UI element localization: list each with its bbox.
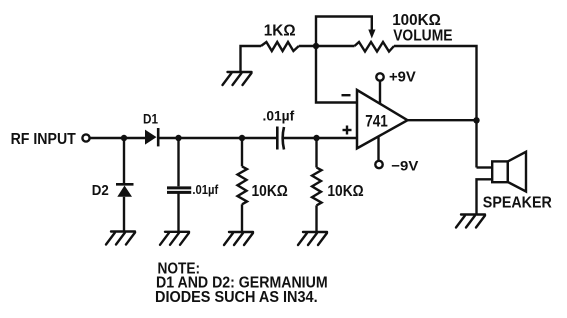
wire: wiper loop bbox=[316, 17, 372, 47]
wire: output to speaker top terminal bbox=[477, 166, 493, 168]
wiper arrow bbox=[368, 30, 375, 39]
svg-text:10KΩ: 10KΩ bbox=[252, 183, 288, 200]
label + input sign bbox=[343, 126, 352, 135]
svg-text:DIODES SUCH AS IN34.: DIODES SUCH AS IN34. bbox=[155, 289, 318, 306]
svg-text:10KΩ: 10KΩ bbox=[327, 183, 363, 200]
wire: C2 right plate to op-amp + input bbox=[284, 137, 358, 139]
svg-text:VOLUME: VOLUME bbox=[393, 27, 453, 44]
speaker LS1 bbox=[492, 152, 526, 192]
node: C1 tap junction bbox=[175, 135, 181, 141]
svg-text:D1: D1 bbox=[143, 111, 158, 127]
ground (speaker) bbox=[456, 215, 485, 228]
ground (R1) bbox=[223, 72, 252, 85]
−9V terminal bbox=[375, 137, 382, 169]
node: R3 tap junction bbox=[313, 135, 319, 141]
node: output junction bbox=[473, 117, 479, 123]
svg-text:−9V: −9V bbox=[391, 157, 419, 173]
ground (R2) bbox=[224, 232, 253, 245]
ground (C1) bbox=[160, 232, 189, 245]
input terminal bbox=[82, 134, 89, 141]
wire: D1 cathode to C2 left plate bbox=[158, 137, 277, 139]
node: D2 tap junction bbox=[121, 135, 127, 141]
label − input sign bbox=[342, 94, 351, 96]
ground (R3) bbox=[298, 232, 327, 245]
svg-text:D2: D2 bbox=[92, 182, 109, 199]
svg-text:741: 741 bbox=[365, 112, 388, 131]
svg-text:.01µf: .01µf bbox=[192, 182, 218, 197]
capacitor C1 (shunt .01µf) bbox=[167, 138, 191, 231]
diode D1 bbox=[145, 128, 158, 146]
svg-text:+9V: +9V bbox=[389, 69, 416, 85]
diode D2 bbox=[116, 138, 134, 231]
wire: op-amp output to output node bbox=[408, 119, 477, 121]
potentiometer R4 100KΩ bbox=[355, 42, 395, 52]
wire: feedback junction to inverting input bbox=[316, 46, 357, 103]
capacitor C2 (series .01µf) bbox=[277, 127, 284, 150]
note text bbox=[155, 261, 328, 306]
node: feedback junction bbox=[313, 43, 319, 49]
wire: speaker bottom terminal to ground bbox=[477, 179, 493, 214]
node: R2 tap junction bbox=[239, 135, 245, 141]
wire: R1 right to R4 left bbox=[299, 45, 355, 47]
wire: ground riser to R1 left bbox=[241, 46, 262, 72]
wire: R4 right to output node bbox=[394, 46, 477, 168]
resistor R3 10KΩ bbox=[312, 138, 322, 232]
svg-text:.01µf: .01µf bbox=[263, 107, 295, 123]
svg-text:SPEAKER: SPEAKER bbox=[483, 195, 552, 212]
svg-text:RF INPUT: RF INPUT bbox=[11, 131, 76, 148]
ground (D2) bbox=[106, 232, 135, 245]
svg-text:1KΩ: 1KΩ bbox=[264, 23, 296, 40]
resistor R1 1KΩ bbox=[261, 42, 299, 51]
wire: input terminal to D1 anode bbox=[90, 137, 145, 139]
+9V terminal bbox=[376, 73, 383, 103]
op-amp U1 741 bbox=[357, 90, 408, 148]
resistor R2 10KΩ bbox=[238, 138, 248, 232]
